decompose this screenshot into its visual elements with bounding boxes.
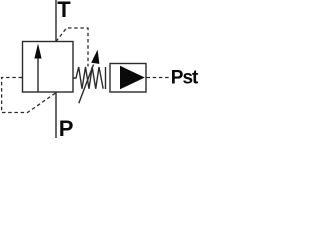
svg-text:Pst: Pst: [171, 67, 199, 88]
svg-text:P: P: [59, 116, 74, 138]
svg-text:T: T: [57, 0, 71, 22]
